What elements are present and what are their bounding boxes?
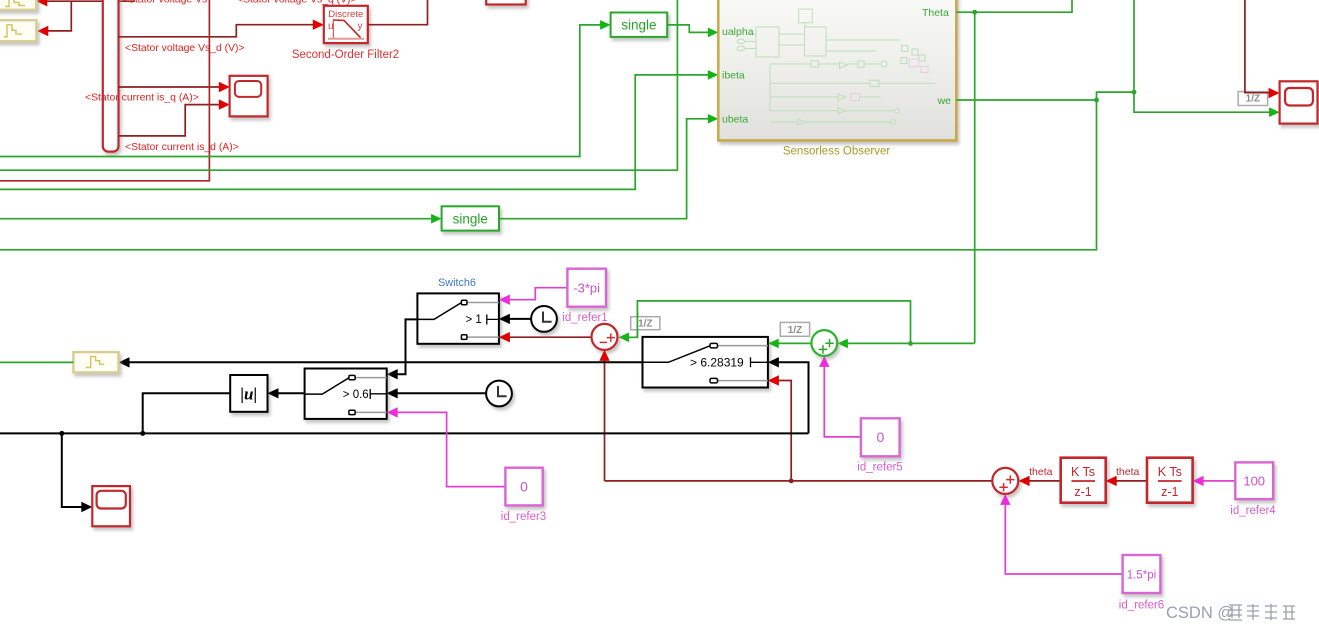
wire clock1 into Switch6 input2: [507, 318, 531, 320]
svg-text:-3*pi: -3*pi: [573, 281, 600, 296]
wire dark red from top into scope input 1: [1245, 0, 1272, 93]
svg-text:Switch6: Switch6: [438, 277, 476, 289]
wire green sum output into >6.28319 input1: [776, 342, 812, 344]
svg-text:ibeta: ibeta: [722, 69, 745, 81]
svg-text:<Stator current is_q (A)>: <Stator current is_q (A)>: [85, 93, 199, 104]
node Theta top: [972, 10, 977, 15]
unit-delay badge 1/Z left: [631, 317, 660, 330]
wire bus output 3 to scope in2: [119, 105, 223, 136]
observer thumbnail sketch: [737, 9, 935, 125]
node theta branch: [908, 341, 913, 346]
wire green E from we junction: [0, 100, 1097, 250]
wire K Ts 2 output into K Ts 1: [1113, 480, 1147, 482]
wire we to scope input 2: [1134, 92, 1272, 112]
wire clock2 into >0.6 input2: [395, 392, 486, 394]
discrete integrator block K Ts/z-1 #1: [1061, 458, 1106, 503]
arrow into stair block1: [36, 0, 47, 6]
node feedback |u|: [140, 431, 145, 436]
clock Clock2: [486, 381, 512, 407]
svg-text:Sensorless Observer: Sensorless Observer: [783, 146, 891, 158]
wire feedback into >6.28319 input2: [776, 362, 809, 433]
wire single1 to ualpha: [667, 25, 710, 33]
svg-text:0: 0: [520, 479, 528, 495]
wire sum3 output long: [605, 480, 993, 482]
switch block Switch6: [417, 293, 499, 343]
svg-text:theta: theta: [1116, 466, 1140, 478]
svg-text:<Stator voltage Vs_d (V)>: <Stator voltage Vs_d (V)>: [125, 43, 245, 54]
svg-text:<Stator voltage Vs_q (V)>: <Stator voltage Vs_q (V)>: [237, 0, 357, 6]
wire 100 into K Ts 2: [1201, 480, 1235, 482]
scope block top-right: [1280, 81, 1318, 123]
wire theta loop crossing badge (redrawn over): [636, 310, 638, 337]
svg-text:Discrete: Discrete: [328, 9, 363, 20]
wire red sum output into Switch6 input3: [506, 336, 591, 338]
stair-generator block2: [0, 20, 36, 41]
svg-text:ubeta: ubeta: [722, 114, 748, 126]
wire id_refer3 into >0.6 input3: [395, 412, 505, 486]
svg-text:1/Z: 1/Z: [788, 325, 802, 336]
constant block 1.5*pi id_refer6: [1123, 555, 1161, 593]
svg-text:1/Z: 1/Z: [638, 319, 652, 330]
wire green C to ibeta: [0, 75, 711, 189]
svg-text:id_refer6: id_refer6: [1119, 600, 1164, 612]
discrete integrator block K Ts/z-1 #2: [1147, 458, 1193, 503]
bus selector: [103, 0, 119, 152]
vertical red line x=209 with horizontal return at y=181: [0, 0, 209, 181]
wire theta loop to red sum: [626, 301, 911, 344]
arrow into stair block2: [37, 26, 48, 36]
svg-text:single: single: [621, 18, 656, 33]
wire green A to single1: [0, 25, 603, 157]
wire we output: [956, 92, 1134, 100]
wire green B up off-screen: [0, 0, 677, 170]
wire single2 to ubeta: [499, 119, 711, 219]
svg-text:0: 0: [877, 429, 885, 445]
wire sum3 branch into >6.28319 input3: [776, 381, 792, 481]
node feedback left: [59, 431, 64, 436]
svg-text:CSDN @: CSDN @: [1166, 604, 1234, 622]
wire theta horizontal into green sum: [845, 342, 975, 344]
wire |u| output to feedback line: [143, 393, 231, 433]
wire sum3 output into red sum bottom input: [604, 357, 606, 481]
svg-text:Theta: Theta: [922, 7, 949, 19]
wire dark red top-left horizontal to stair block1: [46, 1, 135, 31]
node on sum3 output: [789, 479, 794, 484]
wire we branch from off-screen top: [1133, 0, 1135, 92]
switch block >0.6: [305, 369, 387, 419]
wire Theta down the right side: [974, 12, 976, 343]
svg-text:z-1: z-1: [1074, 485, 1091, 499]
svg-text:1.5*pi: 1.5*pi: [1127, 570, 1156, 582]
Second-Order Filter2 block: [324, 6, 368, 43]
svg-text:u: u: [328, 21, 334, 32]
wire bus output 2 to scope in1: [119, 86, 223, 88]
constant block 100 id_refer4: [1235, 462, 1273, 499]
wire >0.6 output into |u|: [276, 392, 305, 394]
svg-text:id_refer3: id_refer3: [501, 511, 546, 523]
constant block 0 id_refer5: [861, 418, 900, 456]
unit-delay badge 1/Z mid: [780, 322, 809, 336]
svg-text:y: y: [358, 21, 363, 32]
svg-text:we: we: [937, 95, 952, 107]
stair-generator block1 (cut off at top): [0, 0, 36, 10]
sum block red (theta error): [592, 324, 618, 350]
scope block bottom-left: [92, 486, 130, 526]
svg-text:> 6.28319: > 6.28319: [690, 355, 744, 369]
svg-text:theta: theta: [1029, 466, 1053, 478]
wire Theta output: [956, 0, 1072, 12]
wire branch to scope bottom-left: [62, 433, 85, 507]
svg-text:Second-Order Filter2: Second-Order Filter2: [292, 49, 399, 61]
svg-text:ualpha: ualpha: [722, 26, 754, 38]
wire K Ts 1 output into sum3: [1026, 480, 1061, 482]
single1 data-type block: [611, 13, 668, 37]
clock Clock1: [531, 306, 557, 332]
unit-delay badge 1/Z at top-right scope: [1238, 92, 1267, 106]
svg-text:> 0.6: > 0.6: [343, 389, 369, 401]
svg-text:> 1: > 1: [466, 314, 482, 326]
long feedback wire bottom: [0, 432, 809, 434]
svg-text:single: single: [453, 211, 488, 226]
wire -3*pi into Switch6 input1: [506, 288, 567, 300]
svg-text:K Ts: K Ts: [1158, 465, 1182, 479]
wire Switch6 output down into >0.6 switch: [395, 319, 417, 374]
scope block top-left: [230, 76, 268, 117]
svg-text:|u|: |u|: [240, 385, 257, 404]
svg-text:z-1: z-1: [1161, 485, 1178, 499]
single2 data-type block: [442, 206, 499, 230]
wire >6.28319 output to stair block3: [127, 361, 643, 363]
wire green D into single2: [0, 218, 434, 220]
wire green stub from stair block3: [0, 361, 73, 363]
svg-text:100: 100: [1243, 474, 1265, 489]
abs block |u|: [230, 375, 267, 412]
wire filter output up off-screen: [368, 0, 428, 25]
constant block -3*pi: [567, 269, 606, 307]
svg-text:id_refer1: id_refer1: [562, 312, 607, 324]
svg-text:id_refer4: id_refer4: [1230, 505, 1276, 517]
sum block green (theta wrap): [811, 330, 837, 356]
svg-text:id_refer5: id_refer5: [857, 462, 902, 474]
wire bus output 1 to Second-Order Filter2: [119, 25, 317, 37]
cut-off red block fragment at top: [486, 0, 526, 5]
wire id_refer5 into green sum bottom: [824, 363, 861, 437]
switch block >6.28319: [643, 337, 768, 388]
svg-text:<Stator voltage Vs: <Stator voltage Vs: [122, 0, 207, 6]
sum block red bottom-right: [992, 468, 1018, 494]
svg-text:1/Z: 1/Z: [1246, 94, 1260, 105]
svg-text:K Ts: K Ts: [1071, 465, 1095, 479]
constant block 0 id_refer3: [505, 468, 542, 506]
stair-generator block3: [73, 352, 118, 372]
wire 1.5*pi into sum3 bottom: [1005, 502, 1122, 575]
arrow into filter input u: [313, 20, 324, 30]
svg-text:<Stator current is_d (A)>: <Stator current is_d (A)>: [125, 142, 239, 153]
